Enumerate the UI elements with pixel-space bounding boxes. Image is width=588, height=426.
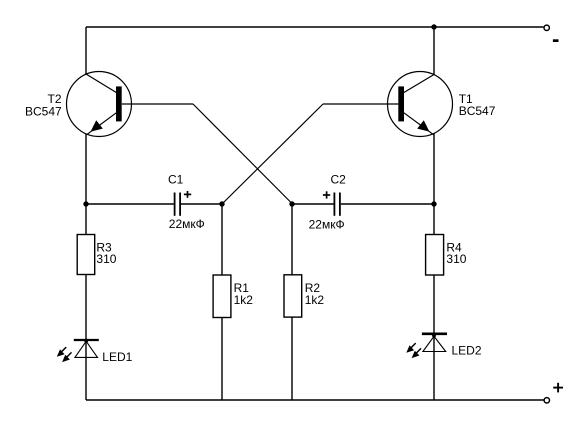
wire cross-couple T2 base to node B (diagonal) xyxy=(193,104,293,204)
LED2 diode xyxy=(422,333,447,351)
svg-text:310: 310 xyxy=(446,252,466,266)
wire node A down to R1 xyxy=(221,204,223,400)
node A junction dot xyxy=(219,201,224,206)
node plus terminal xyxy=(544,398,549,403)
wire C1 right plate to node A xyxy=(181,203,222,205)
wire left rail to C1 left plate xyxy=(86,203,174,205)
svg-text:1k2: 1k2 xyxy=(305,293,325,307)
node left rail / C1 junction dot xyxy=(83,201,88,206)
wire bottom rail (plus net) xyxy=(86,399,544,401)
LED1 diode xyxy=(74,339,99,358)
label C1 polarity plus xyxy=(184,191,191,198)
node right rail / C2 junction dot xyxy=(431,201,436,206)
resistor R3 xyxy=(77,235,95,275)
svg-text:LED2: LED2 xyxy=(452,343,482,357)
wire right rail upper (top rail to T1 collector) xyxy=(433,27,435,75)
wire T2 base lead xyxy=(122,103,193,105)
label C2 polarity plus xyxy=(323,191,330,198)
svg-text:C1: C1 xyxy=(168,172,184,186)
svg-text:22мкФ: 22мкФ xyxy=(169,217,205,231)
svg-text:BC547: BC547 xyxy=(459,104,496,118)
resistor R4 xyxy=(426,235,444,276)
LED2 emission arrow 2 xyxy=(412,348,421,358)
label minus xyxy=(553,39,559,42)
svg-text:1k2: 1k2 xyxy=(234,293,254,307)
svg-text:C2: C2 xyxy=(331,173,347,187)
node B junction dot xyxy=(289,201,294,206)
wire node B down to R2 xyxy=(291,204,293,400)
wire cross-couple T1 base to node A (diagonal) xyxy=(222,104,323,204)
wire left rail upper (top rail to T2 collector) xyxy=(85,27,87,74)
wire top rail (minus net) xyxy=(86,26,543,28)
svg-text:LED1: LED1 xyxy=(102,350,132,364)
LED2 emission arrow 1 xyxy=(406,343,415,353)
node minus terminal xyxy=(544,25,549,30)
label plus xyxy=(553,383,563,393)
svg-text:22мкФ: 22мкФ xyxy=(309,217,345,231)
svg-text:310: 310 xyxy=(96,252,116,266)
capacitor C2 xyxy=(334,193,340,216)
transistor T1 xyxy=(388,72,453,137)
node top rail / T1 collector junction dot xyxy=(431,24,436,29)
resistor R2 xyxy=(284,275,302,317)
wire T1 base lead xyxy=(323,103,398,105)
resistor R1 xyxy=(213,275,231,318)
svg-text:BC547: BC547 xyxy=(25,105,62,119)
capacitor C1 xyxy=(175,193,181,216)
wire right rail lower (T1 emitter to bottom rail) xyxy=(433,134,435,401)
wire node B to C2 left plate xyxy=(292,203,334,205)
transistor T2 xyxy=(67,72,132,137)
LED1 emission arrow 2 xyxy=(62,352,71,362)
LED1 emission arrow 1 xyxy=(57,347,66,357)
wire left rail lower (T2 emitter to bottom rail) xyxy=(85,134,87,400)
wire C2 right plate to right rail xyxy=(341,203,434,205)
